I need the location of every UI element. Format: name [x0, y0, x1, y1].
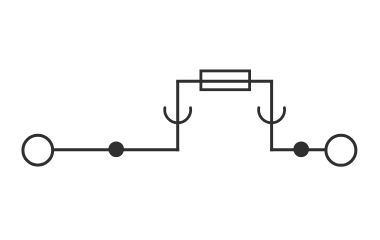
- test socket (right disconnect cup): [259, 108, 285, 123]
- wire (top horizontal through fuse): [176, 80, 273, 83]
- wire (right vertical riser): [270, 81, 273, 151]
- wire (left vertical riser): [176, 81, 179, 151]
- junction dot (left): [108, 142, 124, 158]
- test socket (left disconnect cup): [165, 108, 191, 123]
- terminal circle (right screw clamp): [326, 135, 356, 165]
- fuse F1 (rectangle body): [201, 71, 250, 90]
- wire (left horizontal from terminal to riser elbow): [53, 148, 179, 151]
- terminal circle (left screw clamp): [23, 135, 53, 165]
- junction dot (right): [293, 142, 309, 158]
- wire (right horizontal from riser elbow to terminal): [270, 148, 326, 151]
